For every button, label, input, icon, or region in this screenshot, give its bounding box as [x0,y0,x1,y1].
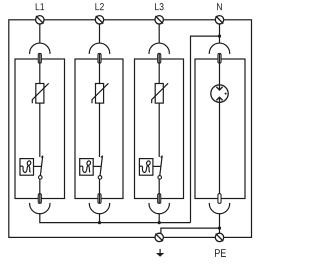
thermal disconnector F1 box [20,159,34,176]
ground symbol arrow [156,249,164,257]
thermal disconnector F2 curl [80,161,91,173]
node PE / bus B junction [218,227,221,230]
label L1 [36,3,44,10]
module 2 (L2 varistor protection path) [75,43,123,214]
disconnector contact circle 1 [39,176,43,180]
module 3 top plug arc [149,43,169,54]
thermal disconnector F3 link [153,165,161,167]
spark gap GDT circle [211,85,228,102]
module 4 box [195,59,245,199]
module 2 top plug arc [89,43,109,54]
spark gap gas dot [225,93,227,95]
varistor MOV3 body [155,84,163,104]
wire contact to module 1 bottom [39,179,41,203]
module 4 top pin [218,53,221,63]
wire varistor MOV3 to disconnector [158,103,160,157]
thermal disconnector F1 curl [20,161,31,173]
module 2 bottom plug arc [89,203,109,214]
wire pin to varistor MOV3 [158,53,160,83]
module 1 bottom pin [38,194,41,204]
module 1 bottom plug arc [30,203,50,214]
wire bus B (ground terminal to PE) [161,228,220,234]
module 1 (L1 varistor protection path) [15,43,65,214]
terminal L3 [155,16,163,24]
wire pin to spark gap [219,53,221,89]
varistor MOV2 body [96,84,104,104]
thermal disconnector F3 box [139,159,153,176]
wire module 4 drop to PE terminal [219,214,221,234]
thermal disconnector F2 link [93,165,101,167]
wire L2 terminal to module 2 [99,24,101,43]
disconnector contact circle 3 [158,176,162,180]
spark gap top electrode arrow [216,87,222,90]
disconnector switch blade 1 tick [41,156,43,158]
terminal PE (bottom right) [215,233,223,241]
module 1 top plug arc [30,43,50,54]
terminal N [215,16,223,24]
label L3 [155,3,163,10]
wire varistor MOV2 to disconnector [99,103,101,157]
module 2 top pin [98,53,101,63]
wire contact to module 3 bottom [158,179,160,203]
varistor MOV1 diagonal [32,83,48,103]
module 3 (L3 varistor protection path) [135,43,184,214]
wire bottom bus A (varistor common to N) [40,214,191,223]
enclosure outline [9,20,252,238]
module 4 (N-PE spark gap path) [195,43,245,214]
wire module 3 drop to bus A [158,214,160,223]
varistor MOV2 diagonal [92,83,108,103]
disconnector switch blade 3 [160,156,162,175]
module 4 bottom pin [218,194,221,204]
terminal ground (bottom left) [155,233,163,241]
wire N bus riser to bottom bus [191,36,220,223]
node N junction [218,35,221,38]
terminal L1 [36,16,44,24]
module 3 bottom plug arc [149,203,169,214]
module 2 box [75,59,123,199]
wire module 2 drop to bus A [99,214,101,223]
module 2 bottom pin [98,194,101,204]
wire L3 terminal to module 3 [158,24,160,43]
disconnector switch blade 2 [100,156,102,175]
wire varistor MOV1 to disconnector [39,103,41,157]
node module 2 / bus A junction [98,221,101,224]
module 3 box [135,59,184,199]
thermal disconnector F1 link [34,165,42,167]
disconnector switch blade 1 [40,156,42,175]
module 1 box [15,59,65,199]
disconnector contact circle 2 [98,176,102,180]
wire L1 terminal to module 1 [39,24,41,43]
spark gap bottom electrode arrow [216,97,222,100]
module 4 bottom plug arc [209,203,229,214]
disconnector switch blade 2 tick [101,156,103,158]
module 1 top pin [38,53,41,63]
label N [217,3,222,10]
label L2 [95,3,103,10]
wire pin to varistor MOV1 [39,53,41,83]
varistor MOV3 diagonal [152,83,168,103]
disconnector switch blade 3 tick [161,156,163,158]
wire spark gap to module 4 bottom [219,98,221,204]
label PE [215,249,226,257]
module 4 top plug arc [209,43,229,54]
node module 3 / bus A junction [158,221,161,224]
varistor MOV1 body [36,84,44,104]
module 3 bottom pin [158,194,161,204]
thermal disconnector F3 curl [140,161,151,173]
module 3 top pin [158,53,161,63]
thermal disconnector F2 box [80,159,94,176]
wire N terminal to module 4 [219,24,221,43]
wire pin to varistor MOV2 [99,53,101,83]
terminal L2 [95,16,103,24]
wire contact to module 2 bottom [99,179,101,203]
